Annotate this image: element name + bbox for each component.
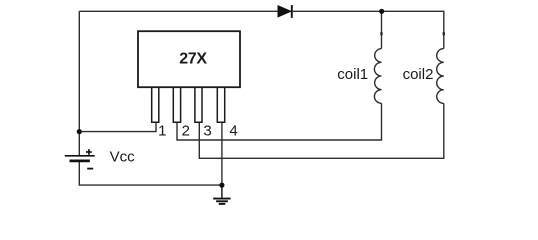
battery minus mark bbox=[87, 168, 93, 170]
wire pin 1 to left rail bbox=[79, 122, 156, 131]
svg-text:4: 4 bbox=[229, 122, 237, 139]
wire pin 2 to coil1 bottom bbox=[177, 103, 382, 140]
pin 2 bbox=[173, 87, 180, 122]
svg-text:1: 1 bbox=[158, 122, 166, 139]
svg-text:coil2: coil2 bbox=[403, 66, 434, 83]
IC U1 body bbox=[138, 31, 240, 87]
pin 1 bbox=[152, 87, 159, 122]
svg-text:coil1: coil1 bbox=[337, 66, 368, 83]
svg-text:27X: 27X bbox=[179, 51, 207, 68]
node mark on coil1 feed wire bbox=[380, 32, 382, 35]
node: pin4 / battery negative / ground junction dot bbox=[219, 183, 224, 188]
ground bbox=[213, 185, 230, 204]
node: diode cathode / coil1 / coil2 junction dot bbox=[379, 9, 384, 14]
svg-text:Vcc: Vcc bbox=[110, 149, 136, 166]
inductor coil1 bbox=[374, 49, 381, 104]
wire pin 3 to coil2 bottom bbox=[199, 103, 443, 158]
svg-text:3: 3 bbox=[203, 122, 211, 139]
svg-text:2: 2 bbox=[182, 122, 190, 139]
battery plus mark bbox=[86, 149, 92, 155]
pin 3 bbox=[195, 87, 202, 122]
battery V1 bbox=[65, 156, 95, 161]
wire left rail: top rail down to battery positive plate bbox=[78, 11, 80, 155]
node: pin1 / Vcc junction dot bbox=[77, 129, 82, 134]
wire pin 4 down to ground junction bbox=[221, 122, 223, 185]
wire diode cathode to junction node bbox=[293, 10, 382, 12]
diode D1 bbox=[278, 5, 292, 18]
wire top rail: left rail to diode anode bbox=[79, 10, 278, 12]
wire battery negative to bottom rail to ground junction bbox=[79, 162, 222, 186]
wire junction node to top-right corner down to coil2 top bbox=[382, 11, 444, 48]
node mark on coil2 feed wire bbox=[443, 32, 445, 35]
wire junction node down to coil1 top bbox=[381, 11, 383, 48]
inductor coil2 bbox=[437, 49, 444, 104]
pin 4 bbox=[217, 87, 224, 122]
